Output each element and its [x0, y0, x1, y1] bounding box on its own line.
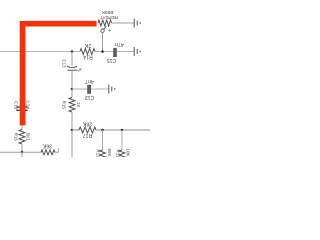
resistor R16 — [19, 130, 25, 145]
wire junction down to R15 — [71, 89, 73, 98]
wire R17 to right edge — [96, 129, 150, 131]
svg-text:C13: C13 — [62, 59, 67, 68]
wire junction to C12 — [72, 88, 87, 90]
ground G2 (right of C15) — [134, 47, 140, 56]
resistor R17 28K — [79, 127, 96, 133]
capacitor C13 — [67, 66, 77, 67]
node bottom left junction — [21, 151, 24, 154]
wire pot wiper down to main line — [102, 32, 104, 51]
pot wiper terminal circle — [101, 29, 104, 32]
node C12/R15 junction — [71, 88, 74, 91]
wire down to R11 — [121, 130, 123, 150]
wire bottom left horizontal — [0, 151, 41, 153]
wire R16 down to bottom junction — [21, 144, 23, 157]
resistor R12 — [100, 150, 106, 160]
node bottom mid junction — [71, 129, 74, 132]
ground G1 (top right) — [134, 19, 140, 28]
svg-text:REPEAT: REPEAT — [100, 15, 118, 20]
pot wiper arrow — [104, 26, 107, 29]
capacitor C10 plates (under red highlight) — [16, 107, 27, 110]
wire junction to R17 — [72, 129, 79, 131]
svg-text:C10: C10 — [13, 101, 18, 110]
svg-text:R17: R17 — [83, 132, 93, 138]
resistor R14 — [80, 49, 95, 55]
node R12 junction — [101, 129, 104, 132]
svg-text:2K: 2K — [84, 42, 91, 48]
svg-text:36K: 36K — [42, 142, 52, 148]
svg-text:R16: R16 — [13, 133, 18, 142]
resistor R15 — [69, 98, 75, 113]
wire main horizontal net — [0, 51, 80, 53]
node main line / C13 branch junction — [71, 50, 74, 53]
svg-text:56K: 56K — [107, 148, 112, 156]
capacitor C12 — [87, 85, 91, 94]
wire red end to R16 — [21, 124, 23, 130]
resistor R? 36K — [41, 150, 55, 155]
wire C15 to ground — [117, 51, 134, 53]
svg-text:B50K: B50K — [101, 9, 114, 15]
svg-text:1K: 1K — [76, 102, 81, 108]
ground G3 (right of C12) — [109, 85, 115, 94]
wire below junction down to bottom edge — [71, 130, 73, 157]
capacitor C15 — [113, 48, 117, 57]
svg-text:R14: R14 — [83, 54, 93, 60]
C13 polarity arrow mark — [78, 69, 81, 72]
svg-text:10K: 10K — [125, 148, 130, 156]
svg-text:28K: 28K — [82, 120, 92, 126]
svg-text:R12: R12 — [95, 149, 100, 157]
svg-text:2.2n: 2.2n — [26, 100, 31, 109]
wire highlighted red net (thick annotation) — [23, 24, 97, 126]
svg-text:47n: 47n — [115, 41, 124, 47]
wire R15 down to bottom junction — [71, 112, 73, 130]
wire C12 to ground — [91, 88, 109, 90]
svg-text:R11: R11 — [116, 150, 121, 157]
svg-text:C15: C15 — [107, 57, 117, 63]
svg-text:R15: R15 — [62, 101, 67, 110]
wire C13 down to C12 junction — [71, 71, 73, 89]
svg-text:C12: C12 — [85, 94, 95, 100]
wire 36K right lead corner stub — [55, 148, 58, 152]
node R11 junction — [121, 129, 124, 132]
wire junction down to C13 — [71, 52, 73, 66]
wire down to R12 — [102, 130, 104, 150]
svg-text:5K1: 5K1 — [26, 133, 31, 142]
wire main horizontal net right of R14 — [95, 51, 113, 53]
pot plus mark — [108, 29, 111, 32]
resistor R11 — [119, 150, 125, 160]
potentiometer REPEAT B50K body — [98, 20, 112, 26]
node wiper/main line junction — [101, 50, 104, 53]
wire pot right lead to ground — [112, 22, 135, 24]
svg-text:4n7: 4n7 — [85, 78, 94, 84]
